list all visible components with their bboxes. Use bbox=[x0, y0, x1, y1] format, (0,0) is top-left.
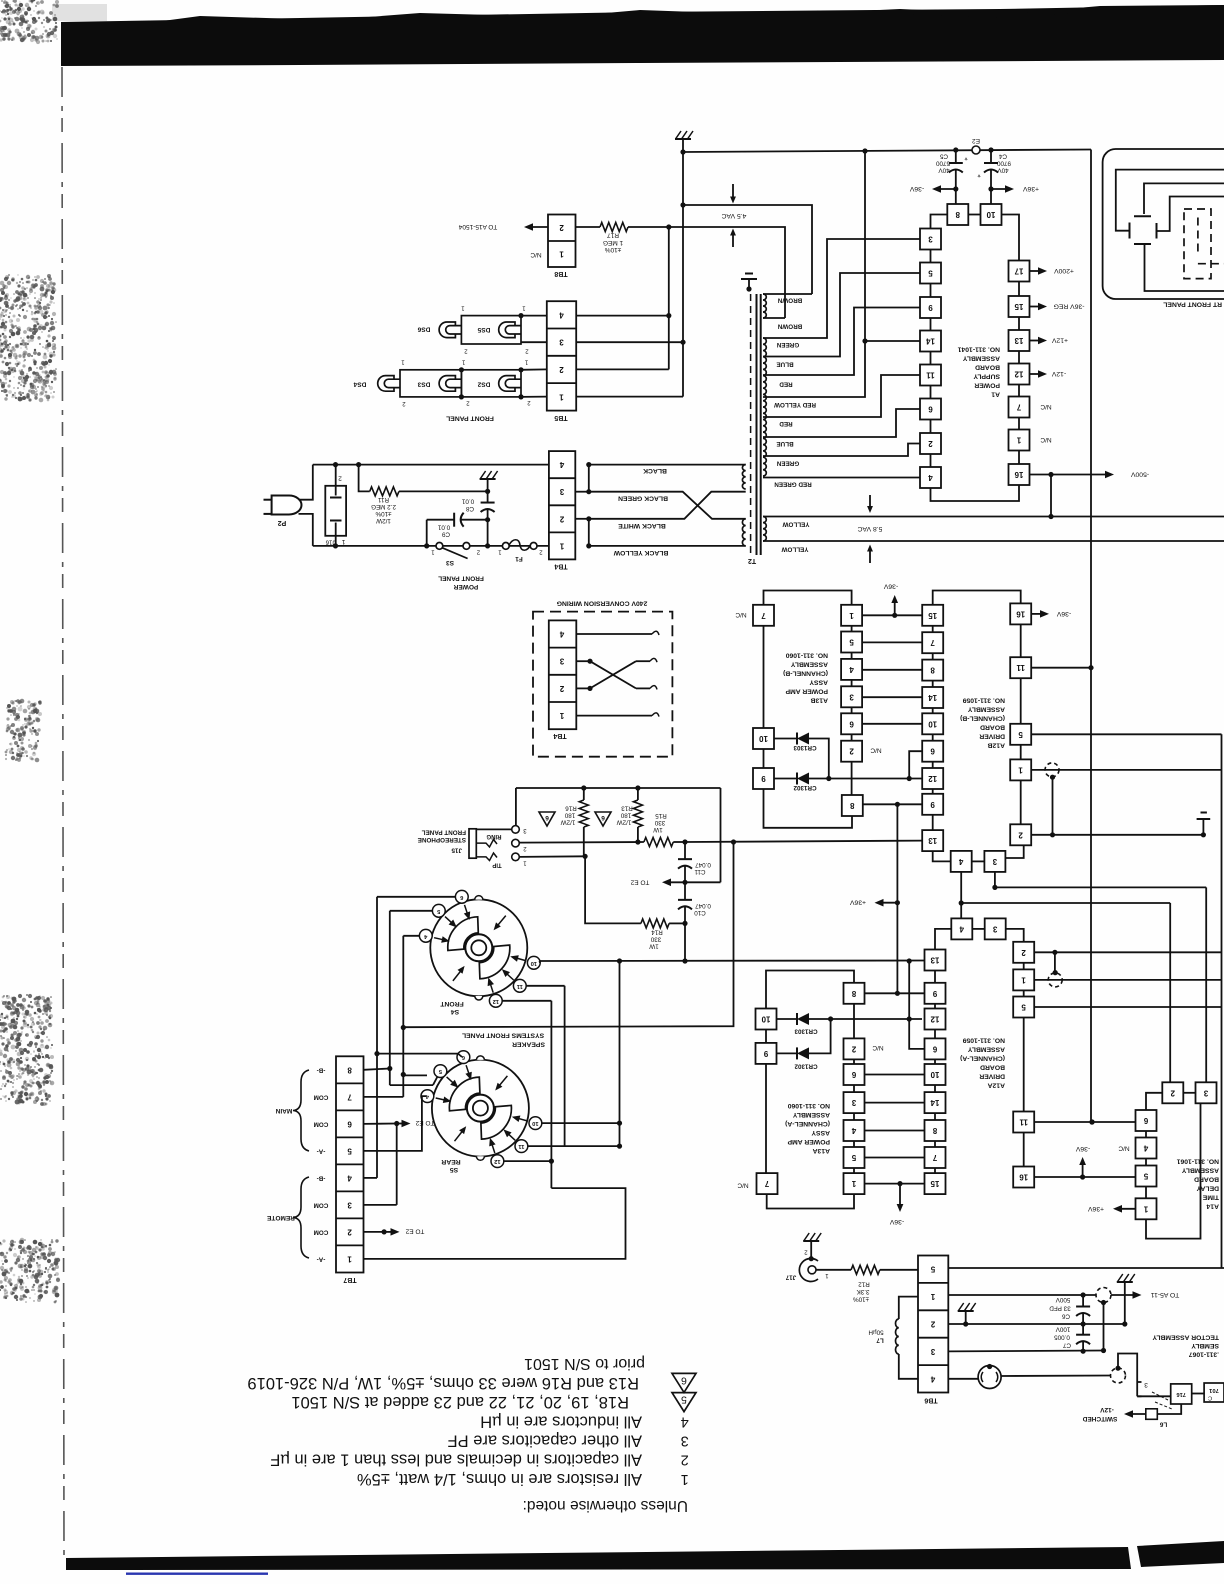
svg-text:SUPPLY: SUPPLY bbox=[973, 373, 1000, 380]
wire GREEN to pin2 bbox=[763, 444, 920, 457]
switch S3 POWER bbox=[436, 543, 443, 550]
pin 16 A12A bbox=[1013, 1167, 1034, 1188]
svg-text:E2: E2 bbox=[972, 137, 980, 144]
wire +36V tap arrow bbox=[895, 900, 900, 905]
diode CR1302 channel A bbox=[777, 1052, 798, 1054]
pin 5 A1 bbox=[920, 263, 941, 284]
diode CR1303 channel A bbox=[777, 1018, 798, 1020]
svg-text:6: 6 bbox=[1143, 1116, 1148, 1125]
svg-text:4: 4 bbox=[959, 924, 964, 933]
ground chassis right bbox=[1202, 820, 1204, 835]
svg-text:*: * bbox=[977, 170, 980, 179]
svg-text:2: 2 bbox=[849, 747, 854, 756]
wire corner to y788 bbox=[720, 788, 722, 882]
pin 8 A12A bbox=[925, 1120, 946, 1141]
wire S4-12 right bbox=[504, 1160, 551, 1162]
blue pen line bbox=[126, 1573, 268, 1575]
svg-text:1: 1 bbox=[1021, 975, 1026, 984]
resistor R14 330 bbox=[585, 856, 641, 923]
svg-text:1: 1 bbox=[431, 549, 435, 555]
pin 7 A1 bbox=[1009, 397, 1030, 418]
terminal E2 bbox=[972, 146, 980, 154]
wire A12A top row bbox=[935, 929, 951, 950]
svg-text:NO. 311-1041: NO. 311-1041 bbox=[957, 346, 1000, 353]
svg-text:1: 1 bbox=[559, 711, 564, 720]
svg-text:All other capacitors are PF: All other capacitors are PF bbox=[448, 1432, 642, 1450]
pin 11 A12B bbox=[1010, 657, 1031, 678]
pin 2 A13A bbox=[844, 1038, 865, 1059]
pin 8 A13A bbox=[844, 983, 865, 1004]
svg-text:-500V: -500V bbox=[1130, 471, 1149, 478]
wire BLACK TB4 jumpers bbox=[586, 462, 591, 467]
wire A12B bottom loop bbox=[933, 851, 951, 861]
svg-text:DRIVER: DRIVER bbox=[979, 1073, 1005, 1080]
pin 15 A1 bbox=[1009, 296, 1030, 317]
svg-text:2: 2 bbox=[527, 399, 531, 405]
svg-text:5: 5 bbox=[1021, 1003, 1026, 1012]
svg-text:2: 2 bbox=[851, 1044, 856, 1053]
svg-text:15: 15 bbox=[1014, 302, 1023, 311]
svg-text:±10%: ±10% bbox=[853, 1296, 869, 1303]
svg-text:C8: C8 bbox=[465, 505, 474, 512]
page left edge bbox=[62, 67, 64, 1558]
wire +36V riser bbox=[896, 804, 898, 993]
svg-text:0.01: 0.01 bbox=[461, 498, 474, 505]
wire YELLOW upper 5.8VAC bbox=[763, 516, 1224, 518]
svg-text:(CHANNEL-A): (CHANNEL-A) bbox=[960, 1055, 1005, 1062]
plug link channel B bbox=[1045, 763, 1059, 777]
node R14 C10 bbox=[682, 921, 687, 926]
svg-text:7: 7 bbox=[1016, 403, 1021, 412]
svg-text:15: 15 bbox=[930, 1179, 939, 1188]
resistor R16 180 bbox=[583, 788, 585, 800]
pin 4 A13B bbox=[841, 659, 862, 680]
svg-text:BOARD: BOARD bbox=[975, 364, 1000, 371]
svg-text:2: 2 bbox=[559, 514, 564, 523]
svg-text:+36V: +36V bbox=[1023, 185, 1040, 192]
svg-text:11: 11 bbox=[1016, 663, 1025, 672]
svg-text:7: 7 bbox=[764, 1179, 769, 1188]
svg-text:4: 4 bbox=[559, 630, 564, 639]
pin 3 A13B bbox=[841, 686, 862, 707]
wire stub at riser x403 bbox=[403, 1074, 427, 1076]
meter panel box bbox=[1103, 149, 1224, 299]
svg-text:L7: L7 bbox=[876, 1337, 884, 1344]
svg-text:R12: R12 bbox=[858, 1281, 870, 1288]
svg-text:-B-: -B- bbox=[317, 1066, 326, 1073]
svg-text:.311-1067: .311-1067 bbox=[1189, 1351, 1219, 1358]
svg-text:prior to S/N 1501: prior to S/N 1501 bbox=[524, 1355, 645, 1372]
svg-text:GREEN: GREEN bbox=[776, 341, 799, 348]
wire right-edge vertical bus bbox=[1221, 734, 1223, 1268]
wire TB5-3 right to ground riser bbox=[576, 341, 683, 343]
node CR junction A bbox=[828, 1016, 833, 1021]
svg-text:11: 11 bbox=[926, 371, 935, 380]
svg-text:DELAY: DELAY bbox=[1196, 1185, 1219, 1192]
svg-text:17: 17 bbox=[1014, 267, 1023, 276]
svg-text:*: * bbox=[964, 153, 967, 162]
svg-text:5: 5 bbox=[1018, 730, 1023, 739]
svg-text:FRONT PANEL: FRONT PANEL bbox=[422, 829, 466, 836]
wire riser x551 S5-12 bbox=[550, 1001, 552, 1188]
wire A13B8 to A12B9 bbox=[863, 803, 922, 805]
svg-text:1: 1 bbox=[401, 359, 405, 365]
pin 4 A13A bbox=[844, 1120, 865, 1141]
resistor R13 180 bbox=[637, 788, 639, 800]
svg-text:REAR: REAR bbox=[441, 1158, 460, 1165]
node C4 out bbox=[988, 186, 993, 191]
wire RING line to A12B13 bbox=[685, 841, 922, 842]
pin 4 A14 bbox=[1136, 1138, 1157, 1159]
wire A13A right chain bbox=[853, 1004, 855, 1039]
svg-text:R18, 19, 20, 21, 22 and 23 add: R18, 19, 20, 21, 22 and 23 added at S/N … bbox=[291, 1393, 629, 1411]
svg-text:FRONT: FRONT bbox=[439, 1000, 463, 1007]
svg-text:+12V: +12V bbox=[1052, 337, 1069, 344]
svg-text:4: 4 bbox=[930, 1374, 935, 1383]
svg-text:POWER: POWER bbox=[453, 583, 478, 590]
svg-text:R11: R11 bbox=[377, 496, 389, 503]
svg-text:BOARD: BOARD bbox=[980, 724, 1005, 731]
wire A12B11 to E2 bus bbox=[1031, 667, 1091, 669]
svg-text:A13A: A13A bbox=[813, 1147, 830, 1154]
transformer T2 primary windings bbox=[742, 465, 745, 489]
pin 5 A13B bbox=[841, 632, 862, 653]
wire riser from R17 node to lamp rows bbox=[668, 227, 670, 369]
svg-text:2: 2 bbox=[928, 439, 933, 448]
board A13B right column pins bbox=[851, 626, 853, 632]
svg-text:6: 6 bbox=[928, 405, 933, 414]
wire A12B5 right bbox=[1031, 733, 1221, 735]
svg-text:-12V: -12V bbox=[1051, 370, 1066, 377]
svg-text:11: 11 bbox=[516, 983, 523, 989]
svg-text:1: 1 bbox=[1143, 1204, 1148, 1213]
svg-text:6: 6 bbox=[851, 1070, 856, 1079]
svg-text:6: 6 bbox=[849, 719, 854, 728]
svg-text:RED GREEN: RED GREEN bbox=[774, 481, 812, 488]
svg-text:+200V: +200V bbox=[1054, 267, 1074, 274]
wire A13B4 to A12B8 bbox=[862, 669, 922, 671]
svg-text:N/C: N/C bbox=[737, 1182, 749, 1189]
wire A13B left loop bbox=[764, 789, 853, 828]
wire 240V TB4-1 pigtail bbox=[576, 715, 652, 717]
svg-text:FRONT PANEL: FRONT PANEL bbox=[446, 415, 494, 422]
svg-text:8: 8 bbox=[930, 666, 935, 675]
svg-text:2: 2 bbox=[464, 348, 468, 354]
svg-text:3: 3 bbox=[992, 857, 997, 866]
svg-text:8: 8 bbox=[851, 989, 856, 998]
svg-text:15: 15 bbox=[928, 611, 937, 620]
wire riser to TB7-1 bbox=[364, 1188, 626, 1259]
svg-text:C10: C10 bbox=[694, 909, 706, 916]
svg-text:4: 4 bbox=[347, 1173, 352, 1182]
wire TO E2 mid bbox=[682, 880, 687, 885]
svg-text:C6: C6 bbox=[1061, 1313, 1070, 1320]
wire pin3A to chain bbox=[1006, 929, 1024, 942]
wire TB7-5 stub bbox=[364, 1096, 427, 1151]
wire RED to pin9 bbox=[763, 308, 920, 376]
wire BLACK to primary bbox=[589, 464, 746, 466]
svg-text:POWER AMP: POWER AMP bbox=[785, 688, 828, 695]
board A13B pin 9 bbox=[753, 768, 774, 789]
svg-text:1: 1 bbox=[341, 538, 345, 545]
capacitor C10 0.047 bbox=[684, 882, 686, 900]
wire C10 to output line bbox=[684, 923, 686, 961]
svg-text:BLUE: BLUE bbox=[776, 361, 793, 368]
svg-text:BLACK YELLOW: BLACK YELLOW bbox=[613, 549, 668, 556]
pin 2 A1 bbox=[920, 433, 941, 454]
svg-text:±10%: ±10% bbox=[604, 246, 621, 253]
wire TB8-2 to A15-1504 bbox=[529, 226, 548, 228]
bracket REMOTE bbox=[293, 1177, 309, 1258]
svg-text:POWER AMP: POWER AMP bbox=[787, 1138, 830, 1145]
svg-text:TB5: TB5 bbox=[554, 414, 567, 421]
svg-text:2: 2 bbox=[930, 1320, 935, 1329]
wire output line y961 to A12A13 bbox=[540, 960, 925, 963]
transformer T2 core bbox=[756, 294, 758, 555]
lamp DS6 bbox=[439, 322, 455, 338]
svg-text:RED: RED bbox=[779, 420, 793, 427]
svg-text:STEREOPHONE: STEREOPHONE bbox=[418, 836, 466, 843]
wire S5-10 right bbox=[539, 961, 542, 963]
svg-text:P2: P2 bbox=[278, 519, 287, 526]
wire top loop y788 bbox=[516, 787, 721, 789]
pin 13 A1 bbox=[1009, 330, 1030, 351]
wire A12A2 right bbox=[1034, 951, 1221, 953]
svg-text:40V: 40V bbox=[997, 167, 1009, 174]
wire TB5-2 right bbox=[576, 368, 669, 370]
svg-text:10: 10 bbox=[928, 719, 937, 728]
svg-text:12: 12 bbox=[494, 1158, 500, 1164]
svg-text:10: 10 bbox=[761, 1015, 770, 1024]
svg-text:1 MEG: 1 MEG bbox=[603, 239, 623, 246]
connector 701 bbox=[1204, 1383, 1224, 1402]
pin 4 A12A bbox=[951, 918, 972, 939]
svg-text:-12V: -12V bbox=[1099, 1406, 1113, 1413]
wire riser to A14-2 bbox=[1169, 903, 1171, 1083]
svg-text:C4: C4 bbox=[998, 153, 1007, 160]
svg-text:5: 5 bbox=[849, 638, 854, 647]
switch S4 front speakers wipers bbox=[448, 917, 479, 951]
svg-text:TO E2: TO E2 bbox=[405, 1228, 424, 1235]
board A12B left column pins bbox=[932, 626, 934, 632]
svg-text:RED YELLOW: RED YELLOW bbox=[774, 401, 816, 408]
svg-text:1: 1 bbox=[522, 305, 526, 311]
wire A13A3 to A12A14 bbox=[865, 1102, 925, 1104]
pin 15 A12B bbox=[922, 605, 943, 626]
svg-text:N/C: N/C bbox=[1040, 403, 1052, 410]
svg-text:4: 4 bbox=[681, 1413, 689, 1429]
svg-text:9700: 9700 bbox=[997, 160, 1012, 167]
diode CR1303 channel B bbox=[774, 738, 797, 740]
svg-text:T2: T2 bbox=[748, 557, 756, 564]
wire riser TB7-6 to TB7-3 bbox=[396, 1124, 398, 1205]
svg-text:1W: 1W bbox=[649, 943, 659, 950]
svg-text:12: 12 bbox=[1014, 370, 1023, 379]
wire top bus bbox=[683, 150, 1091, 153]
svg-text:12: 12 bbox=[928, 774, 937, 783]
wire A14 2-3 bbox=[1183, 1092, 1195, 1094]
svg-text:-36V REG: -36V REG bbox=[1054, 303, 1085, 310]
pin 3 A12A bbox=[985, 918, 1006, 939]
wire -36V arrow channel A bbox=[899, 1184, 901, 1208]
svg-text:DS6: DS6 bbox=[417, 326, 430, 333]
svg-text:14: 14 bbox=[930, 1098, 939, 1107]
wire TB7-8 stub bbox=[364, 1069, 390, 1070]
svg-text:1: 1 bbox=[461, 359, 465, 365]
board A1 pins left column bbox=[930, 250, 932, 263]
svg-text:8: 8 bbox=[955, 210, 960, 219]
plug link channel A bbox=[1048, 973, 1062, 987]
svg-text:4.5 VAC: 4.5 VAC bbox=[722, 212, 747, 219]
wire riser x619 bbox=[619, 961, 621, 1146]
svg-text:1: 1 bbox=[849, 611, 854, 620]
wire BROWN lead 1 bbox=[763, 293, 812, 295]
contact J15 TIP bbox=[476, 853, 497, 861]
pin 1 A12A bbox=[1013, 969, 1034, 990]
wire riser x377 S-6 bus bbox=[376, 897, 378, 1178]
svg-text:RT FRONT PANEL: RT FRONT PANEL bbox=[1163, 301, 1222, 308]
wire mains bottom line bbox=[313, 545, 549, 547]
svg-text:1: 1 bbox=[559, 541, 564, 550]
wire TB6-3 right bbox=[948, 1350, 1103, 1353]
svg-text:C9: C9 bbox=[441, 531, 450, 538]
wire A13A bottom loop bbox=[767, 1194, 854, 1208]
pin 1 A12B bbox=[1010, 759, 1031, 780]
svg-text:TB8: TB8 bbox=[554, 270, 567, 277]
wire A12A5 right bbox=[1034, 1006, 1221, 1008]
note triangle 6 at R16 bbox=[539, 812, 555, 826]
wire TB7-2 stub bbox=[364, 1231, 385, 1233]
pin 3 A14 bbox=[1196, 1082, 1217, 1103]
svg-text:SEMBLY: SEMBLY bbox=[1191, 1342, 1219, 1349]
svg-text:POWER: POWER bbox=[974, 382, 1000, 389]
pin 2 A13B bbox=[841, 741, 862, 762]
pin 5 A12A bbox=[1013, 997, 1034, 1018]
terminal block TB7 bbox=[336, 1056, 364, 1272]
wire RED YELLOW to pin14 bbox=[763, 341, 920, 397]
svg-text:12: 12 bbox=[930, 1015, 939, 1024]
svg-text:100V: 100V bbox=[1055, 1326, 1071, 1333]
svg-text:YELLOW: YELLOW bbox=[781, 546, 808, 553]
plug link protector bbox=[1096, 1288, 1111, 1303]
wire 240V crossover bbox=[587, 659, 592, 664]
svg-text:BLACK WHITE: BLACK WHITE bbox=[618, 522, 666, 529]
wire +200V output bbox=[1030, 270, 1043, 272]
wire A12A pin6 to CR line bbox=[909, 1019, 924, 1049]
svg-text:NO. 311-1059: NO. 311-1059 bbox=[962, 1037, 1005, 1044]
inductor L7 50uH bbox=[899, 1297, 918, 1319]
pin 5 A13A bbox=[844, 1147, 865, 1168]
node R17 right junction bbox=[666, 224, 671, 229]
svg-text:1: 1 bbox=[851, 1179, 856, 1188]
wire A13A5 to A12A7 bbox=[865, 1157, 925, 1159]
svg-text:180: 180 bbox=[620, 812, 631, 819]
svg-text:CR1302: CR1302 bbox=[793, 784, 817, 791]
svg-text:1: 1 bbox=[930, 1292, 935, 1301]
wire J16 bottom bbox=[335, 536, 337, 546]
pin 5 A14 bbox=[1136, 1166, 1157, 1187]
wire TO E2 arrow TB7-2 bbox=[384, 1231, 395, 1233]
pin 16 A12B bbox=[1010, 603, 1031, 624]
svg-text:16: 16 bbox=[1014, 470, 1023, 479]
transformer T2 secondary windings bbox=[763, 294, 766, 318]
note 5 bbox=[672, 1393, 696, 1412]
pin 3 A1 bbox=[920, 229, 941, 250]
svg-text:CR1303: CR1303 bbox=[794, 1028, 818, 1035]
svg-text:+36V: +36V bbox=[1088, 1205, 1105, 1212]
svg-text:Unless otherwise noted:: Unless otherwise noted: bbox=[523, 1497, 688, 1514]
board A13A pin 7 bbox=[757, 1173, 778, 1194]
protector board edge pin 3 bbox=[1136, 1382, 1138, 1396]
svg-text:FRONT PANEL: FRONT PANEL bbox=[438, 575, 484, 582]
ground TB6-2 at TB6 bbox=[965, 1316, 967, 1324]
pin 4 A1 bbox=[920, 467, 941, 488]
wire TB5-4 right to riser bbox=[576, 315, 669, 317]
svg-text:DS5: DS5 bbox=[477, 326, 490, 333]
wire pin4-pin3 A12B bbox=[972, 860, 984, 862]
wire y788 left end to J15 pin3 bbox=[515, 788, 517, 826]
pin 2 A14 bbox=[1162, 1082, 1183, 1103]
capacitor C11 0.047 bbox=[684, 842, 686, 859]
svg-text:All inductors are in µH: All inductors are in µH bbox=[480, 1412, 642, 1430]
svg-text:J17: J17 bbox=[785, 1274, 796, 1281]
pin 1 A13A bbox=[844, 1173, 865, 1194]
wire A12A1 right with plug bbox=[1034, 979, 1221, 981]
svg-text:5700: 5700 bbox=[936, 160, 951, 167]
node C8 C9 junction bbox=[485, 517, 490, 522]
wire TB6-2 right bbox=[948, 1323, 1083, 1325]
svg-text:A1: A1 bbox=[991, 391, 1000, 398]
svg-text:14: 14 bbox=[926, 337, 935, 346]
svg-text:5: 5 bbox=[928, 269, 933, 278]
svg-text:4: 4 bbox=[928, 473, 933, 482]
pin 14 A1 bbox=[920, 331, 941, 352]
svg-text:2: 2 bbox=[559, 223, 564, 232]
svg-text:A12B: A12B bbox=[988, 742, 1005, 749]
svg-text:1: 1 bbox=[559, 250, 564, 259]
fuse F1 bbox=[502, 543, 509, 550]
svg-text:R14: R14 bbox=[651, 929, 663, 936]
svg-text:MAIN: MAIN bbox=[275, 1107, 292, 1114]
wire TIP line bbox=[519, 855, 585, 858]
wire A13B left chain bbox=[763, 626, 765, 728]
switch S4 front speakers rotor bbox=[465, 934, 492, 961]
wire -500V to yellow bus bbox=[1050, 475, 1052, 517]
wire row4 to A14-2 bbox=[961, 902, 1170, 904]
node E2 bus to A14-6 bbox=[1089, 1119, 1094, 1124]
svg-text:1/2W: 1/2W bbox=[376, 517, 391, 524]
svg-text:2: 2 bbox=[681, 1452, 689, 1468]
pin 9 A12B bbox=[922, 794, 943, 815]
lamp DS3 bbox=[439, 376, 455, 392]
svg-text:TO E2: TO E2 bbox=[415, 1119, 434, 1126]
svg-text:CR1303: CR1303 bbox=[793, 744, 817, 751]
svg-text:13: 13 bbox=[928, 836, 937, 845]
switch S5 rear speakers terminals bbox=[466, 1065, 470, 1076]
halftone noise left margin bbox=[17, 4, 21, 8]
ground E-top bbox=[682, 144, 684, 152]
ground at C8 bbox=[487, 484, 489, 491]
svg-text:TO A5-11: TO A5-11 bbox=[1151, 1291, 1180, 1298]
wire pin3 to connector 716 bbox=[1137, 1395, 1171, 1397]
node lamp rows junctions bbox=[518, 313, 523, 318]
switch S4 front speakers wiper arrows bbox=[453, 969, 462, 981]
wire TB7-3 stub bbox=[364, 1204, 397, 1206]
meter dashed box bbox=[1184, 209, 1211, 279]
switch S4 front speakers terminals bbox=[465, 905, 469, 916]
inductor L6 box bbox=[1157, 1404, 1181, 1414]
svg-text:TIP: TIP bbox=[492, 862, 501, 868]
